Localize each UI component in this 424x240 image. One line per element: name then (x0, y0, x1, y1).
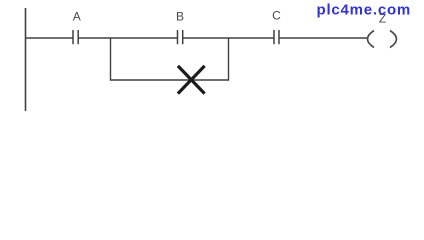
svg-text:B: B (176, 9, 184, 23)
branch wire: left vertical drop (110, 38, 112, 81)
coil Z (368, 31, 397, 48)
svg-text:plc4me.com: plc4me.com (317, 1, 412, 18)
svg-text:C: C (272, 8, 281, 22)
branch wire: bottom horizontal (111, 79, 229, 81)
left power rail (25, 8, 27, 111)
contact C (274, 30, 279, 44)
wire: rail to contact A (25, 37, 73, 39)
open-branch X mark (179, 67, 204, 93)
branch wire: right vertical drop (228, 38, 230, 81)
contact B (178, 30, 183, 44)
svg-text:A: A (73, 9, 81, 23)
wire: contact A to contact B (79, 37, 177, 39)
contact A (73, 30, 78, 44)
wire: contact B to contact C (183, 37, 273, 39)
wire: contact C to coil Z (280, 37, 368, 39)
